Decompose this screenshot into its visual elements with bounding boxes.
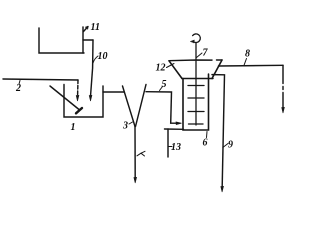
svg-text:5: 5 [162, 79, 167, 90]
svg-text:6: 6 [203, 138, 208, 149]
svg-text:7: 7 [203, 48, 209, 59]
svg-text:1: 1 [71, 122, 76, 133]
svg-text:9: 9 [228, 140, 233, 151]
svg-text:2: 2 [15, 83, 21, 94]
svg-text:12: 12 [156, 63, 166, 74]
svg-text:10: 10 [98, 51, 108, 62]
svg-text:13: 13 [171, 142, 181, 153]
svg-text:8: 8 [245, 49, 250, 60]
svg-text:11: 11 [91, 22, 100, 33]
svg-text:3: 3 [122, 121, 128, 132]
